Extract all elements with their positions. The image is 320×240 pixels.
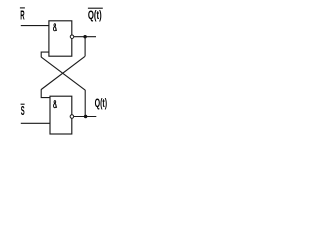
svg-text:Q(t): Q(t) [88, 8, 102, 22]
NAND gate U2 body [50, 96, 72, 134]
U1 output bubble [70, 35, 74, 39]
U2 function label & [54, 101, 57, 108]
wire stub into U2 input [41, 89, 50, 97]
U2 output bubble [70, 115, 74, 119]
wire R input [21, 25, 49, 27]
NAND gate U1 body [49, 21, 72, 56]
wire U2 output [74, 116, 97, 118]
wire U1 feedback input stub [41, 52, 49, 57]
overline of S [21, 103, 25, 105]
wire S input [21, 122, 50, 124]
wire junction Qbar down [84, 37, 86, 57]
overline of Qbar(t) [88, 7, 103, 9]
junction node Qbar [83, 35, 86, 38]
wire up from junction Q [84, 90, 86, 117]
wire cross-coupling Q to U1 input (diagonal) [41, 57, 85, 90]
junction node Q [84, 115, 87, 118]
svg-text:S: S [21, 104, 25, 118]
U1 function label & [53, 24, 56, 31]
wire cross-coupling Qbar to U2 input (diagonal) [41, 56, 85, 89]
svg-text:Q(t): Q(t) [95, 96, 108, 110]
overline of R [20, 7, 25, 9]
svg-text:R: R [20, 9, 24, 23]
wire U1 output [74, 36, 96, 38]
